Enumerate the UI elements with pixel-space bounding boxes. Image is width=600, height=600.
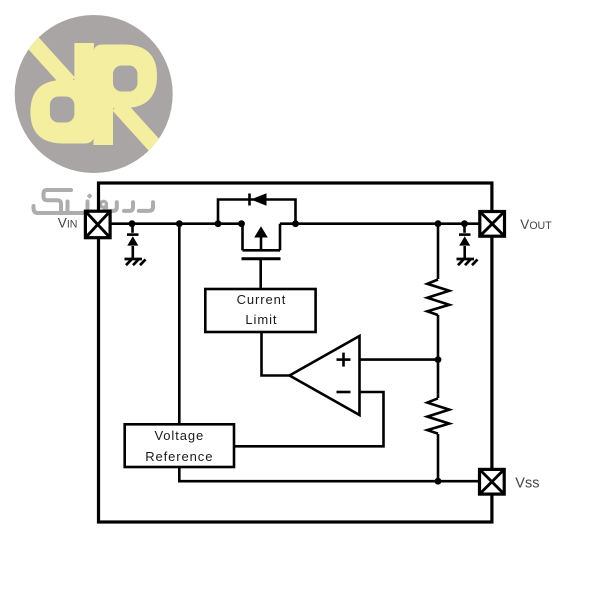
junction dot ground rail xyxy=(435,478,442,485)
wire current limit to op-amp xyxy=(262,332,290,376)
op-amp U1 xyxy=(290,336,360,415)
voltage reference box xyxy=(125,424,234,467)
junction dot diode loop left xyxy=(215,220,222,227)
watermark logo left R hole xyxy=(50,97,75,123)
watermark logo circle xyxy=(15,15,173,173)
svg-text:Reference: Reference xyxy=(145,449,213,464)
ESD diode D1 at VIN xyxy=(127,224,139,259)
svg-text:Vss: Vss xyxy=(515,476,539,492)
junction dot diode loop right xyxy=(292,220,299,227)
svg-text:Current: Current xyxy=(237,292,287,307)
op-amp plus input sign xyxy=(337,353,351,367)
wire VOUT rail xyxy=(280,222,481,225)
ground for D1 xyxy=(125,259,146,265)
watermark logo left R (rotated) xyxy=(22,31,94,143)
watermark persian text xyxy=(34,190,154,213)
svg-text:Limit: Limit xyxy=(245,312,277,327)
resistor R1 xyxy=(427,280,449,316)
ESD diode D2 at VOUT xyxy=(459,224,471,259)
pad VOUT xyxy=(480,212,505,237)
current limit box xyxy=(205,289,315,332)
watermark persian text dot xyxy=(87,193,93,199)
junction dot divider middle xyxy=(435,356,442,363)
wire VRef to ground rail xyxy=(179,467,480,482)
junction dot VRef supply xyxy=(176,220,183,227)
wire VRef supply xyxy=(178,224,181,425)
wire gate lead xyxy=(259,259,262,289)
wire divider middle xyxy=(437,315,440,398)
wire op-amp plus input xyxy=(360,358,439,361)
op-amp minus input sign xyxy=(337,391,351,394)
IC boundary box xyxy=(99,183,492,522)
transistor Q1 pass PMOS xyxy=(242,224,281,259)
svg-text:VOUT: VOUT xyxy=(520,217,552,232)
wire feedback divider top xyxy=(437,224,440,279)
transistor Q1 body arrow xyxy=(254,226,268,237)
watermark logo right R hole xyxy=(113,66,138,92)
junction dot VOUT-ESD xyxy=(461,220,468,227)
junction dot divider top xyxy=(435,220,442,227)
wire VIN rail xyxy=(111,222,243,225)
pad VIN xyxy=(85,211,110,238)
svg-text:Voltage: Voltage xyxy=(154,428,204,443)
wire op-amp minus input xyxy=(234,392,384,446)
pad VSS xyxy=(480,469,505,494)
resistor R2 xyxy=(427,398,449,433)
junction dot source xyxy=(238,220,245,227)
svg-text:VIN: VIN xyxy=(58,216,78,231)
wire divider bottom xyxy=(437,434,440,481)
junction dot VIN-ESD xyxy=(129,220,136,227)
diode D3 reverse xyxy=(250,193,267,206)
wire reverse diode loop xyxy=(218,200,296,224)
ground for D2 xyxy=(457,259,478,265)
watermark logo right R xyxy=(94,45,166,157)
